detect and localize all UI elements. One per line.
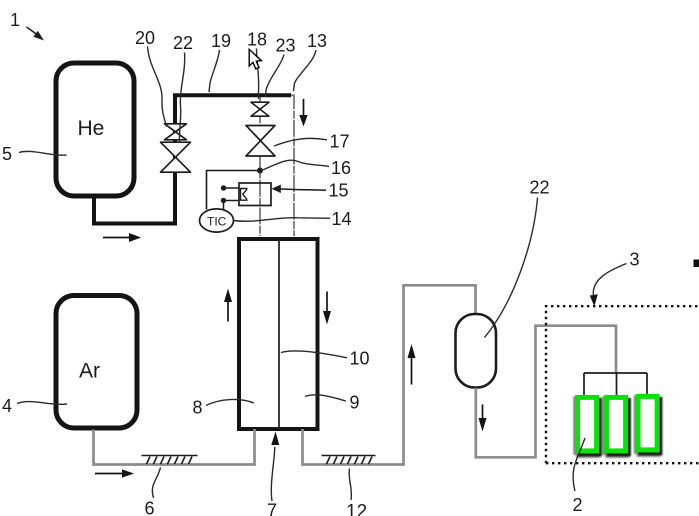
node 16 junction dot [257, 168, 263, 174]
svg-text:6: 6 [145, 499, 155, 516]
leader 10 [281, 351, 347, 358]
svg-text:13: 13 [307, 31, 327, 51]
leader 20 [148, 47, 167, 127]
leader 14 [234, 218, 331, 222]
flow arrow under He tank [103, 233, 141, 242]
leader 13 [294, 50, 317, 91]
pipe vessel to dotted unit (gray) [476, 326, 616, 458]
tank He [56, 63, 134, 196]
leader 22 top [179, 53, 184, 143]
svg-text:Ar: Ar [79, 360, 100, 383]
heater 6 [142, 456, 198, 465]
up arrow in right pipe [408, 344, 416, 385]
manifold to adsorber columns [584, 373, 647, 396]
svg-text:17: 17 [330, 132, 350, 152]
svg-text:22: 22 [530, 178, 550, 198]
terminal dot upper [221, 185, 226, 190]
adsorber column highlight 3 (green) [638, 396, 657, 450]
gray pipe line to column left cell [259, 97, 261, 236]
vessel 22 (buffer) [456, 314, 497, 388]
wire upper dot to box [224, 187, 240, 189]
TIC controller ellipse [200, 209, 234, 232]
controller box 15 [239, 183, 271, 206]
gray pipe line 13 to column right cell [291, 95, 294, 236]
column vessel 8/9 [239, 239, 318, 429]
svg-text:20: 20 [135, 28, 155, 48]
valve 22 (left large) [161, 142, 191, 172]
leader 22 right into vessel [485, 198, 538, 338]
wire lower dot to box [224, 200, 240, 202]
adsorber column highlight 1 (green) [578, 397, 597, 451]
svg-text:1: 1 [10, 10, 20, 30]
leader 19 [209, 50, 220, 92]
heater 12 [322, 456, 376, 465]
svg-text:7: 7 [267, 501, 277, 516]
tank Ar [56, 296, 137, 429]
leader 3 with arrowhead on dotted box [593, 264, 626, 297]
valve 18 [251, 102, 269, 116]
terminal dot lower [221, 198, 226, 203]
leader 7 with arrow into column bottom [271, 447, 274, 501]
svg-text:5: 5 [2, 144, 12, 164]
adsorber column highlight 2 (green) [607, 397, 626, 451]
arrow into box 15 [272, 185, 327, 193]
dotted enclosure 3 [546, 306, 699, 463]
wire node to TIC [207, 171, 261, 210]
svg-text:4: 4 [2, 396, 12, 416]
column divider 10 [278, 240, 280, 428]
wire lower dot to TIC [223, 201, 225, 211]
up arrow left of column [224, 289, 232, 322]
leader 16 [263, 160, 329, 170]
leader 5 [19, 151, 67, 155]
svg-text:22: 22 [173, 33, 193, 53]
leader 12 [349, 469, 351, 501]
svg-text:18: 18 [247, 30, 267, 50]
down arrow below vessel [479, 405, 487, 432]
svg-text:10: 10 [350, 349, 370, 369]
svg-text:15: 15 [329, 181, 349, 201]
svg-text:2: 2 [573, 495, 583, 515]
leader 17 [274, 138, 327, 146]
svg-text:23: 23 [276, 36, 296, 56]
svg-text:19: 19 [211, 31, 231, 51]
valve 17 [246, 126, 275, 157]
valve 20 [165, 124, 187, 140]
flow arrow on Ar pipe [95, 469, 134, 477]
svg-text:12: 12 [346, 502, 367, 516]
edge marker square [694, 260, 699, 268]
pipe column to vessel (gray loop) [303, 285, 476, 464]
mouse cursor [249, 49, 261, 69]
flow arrow down (top right of valves) [299, 99, 307, 127]
arrow for label 1 [27, 27, 45, 41]
leader 23 [266, 55, 285, 98]
pipe He feed (thick) [94, 95, 291, 223]
heater symbol inside box 15 [241, 189, 248, 201]
pipe Ar to column (gray) [94, 429, 255, 465]
svg-text:8: 8 [193, 398, 203, 418]
leader 9 [305, 395, 346, 401]
svg-text:9: 9 [350, 393, 360, 413]
leader 6 [152, 468, 160, 499]
leader 8 [206, 399, 254, 405]
down arrow right of column [323, 292, 331, 325]
svg-text:3: 3 [630, 250, 640, 270]
leader 4 [17, 402, 67, 405]
svg-text:TIC: TIC [207, 215, 227, 229]
svg-text:14: 14 [332, 209, 352, 229]
leader 2 [573, 438, 585, 491]
leader 18 [257, 49, 259, 100]
svg-text:He: He [78, 117, 105, 140]
svg-text:16: 16 [331, 158, 351, 178]
